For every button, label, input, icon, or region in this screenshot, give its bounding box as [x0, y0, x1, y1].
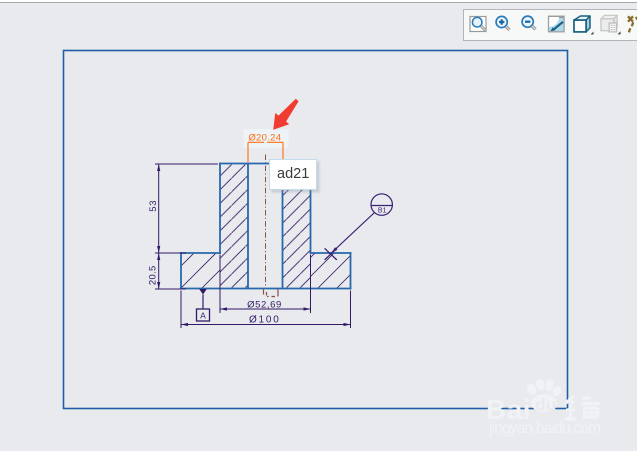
- toolbar box: [463, 9, 637, 41]
- flange top right edge: [311, 252, 351, 254]
- svg-text:du: du: [535, 395, 556, 415]
- icon shaded-view: [540, 8, 564, 32]
- boss top edge: [220, 163, 311, 165]
- svg-text:B1: B1: [378, 208, 387, 215]
- hatch right flange wing: [311, 253, 351, 289]
- svg-text:Ø52,69: Ø52,69: [247, 299, 282, 310]
- hatch right boss wall: [283, 164, 311, 289]
- datum A: [197, 289, 210, 321]
- flange right edge: [350, 253, 352, 289]
- icon partial right: [628, 16, 637, 32]
- red annotation arrow: [273, 99, 298, 130]
- hole left edge: [247, 164, 249, 289]
- svg-text:Ø100: Ø100: [249, 314, 281, 325]
- icon zoom-out: [522, 16, 535, 29]
- centerline: [265, 155, 267, 289]
- flange bottom edge: [181, 288, 351, 290]
- flange left edge: [180, 253, 182, 289]
- svg-text:53: 53: [148, 200, 159, 212]
- top gray separator line: [0, 2, 637, 4]
- selected dimension dia20.24 highlight halo: [244, 129, 289, 148]
- jingyan characters: [565, 396, 600, 419]
- boss left outer edge: [219, 164, 221, 254]
- flange top left edge: [181, 252, 220, 254]
- toolbar icons svg: [463, 9, 637, 40]
- hole right edge: [282, 164, 284, 289]
- dimension dia52.69: [220, 255, 311, 314]
- sheet frame: [64, 51, 568, 409]
- vertical dimension 53 and 20.5: [155, 164, 218, 289]
- svg-text:20.5: 20.5: [148, 265, 159, 285]
- dim text 20.5: [148, 265, 159, 285]
- icon zoom-window: [470, 17, 486, 32]
- hatch left boss wall: [220, 164, 248, 289]
- icon doc-grayed: [601, 15, 621, 34]
- hatch left flange wing: [181, 253, 220, 289]
- svg-text:jingyan.baidu.com: jingyan.baidu.com: [488, 420, 601, 437]
- svg-text:A: A: [200, 311, 206, 321]
- dim text 53: [148, 200, 159, 212]
- icon iso-cube: [574, 16, 594, 35]
- top white strip: [0, 0, 637, 2]
- leader line from balloon: [332, 213, 375, 253]
- datum target balloon B1: [371, 194, 393, 215]
- centerline end marks: [264, 290, 279, 299]
- svg-text:Ø20.24: Ø20.24: [248, 132, 281, 143]
- selected dimension dia20.24 orange: [248, 142, 283, 162]
- tooltip ad21: [269, 159, 317, 190]
- boss right outer edge: [310, 164, 312, 254]
- watermark baidu logo: [486, 378, 601, 437]
- datum target X mark: [325, 248, 337, 260]
- dimension dia100: [181, 291, 351, 329]
- part outline: [181, 164, 351, 289]
- icon zoom-in: [496, 16, 509, 30]
